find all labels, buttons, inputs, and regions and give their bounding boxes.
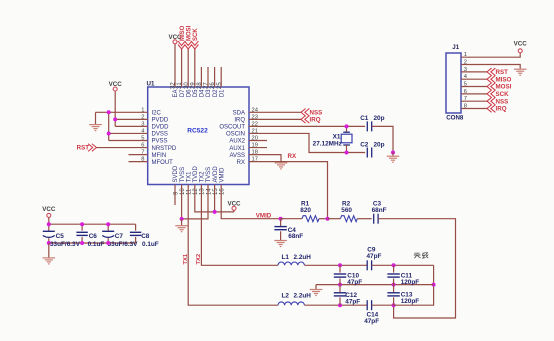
svg-text:PVDD: PVDD <box>152 118 169 124</box>
wire pin2 PVDD <box>115 118 148 120</box>
port IRQ <box>301 116 306 124</box>
wire pin6 NRSTPD <box>97 147 148 149</box>
svg-text:NRSTPD: NRSTPD <box>152 146 177 152</box>
svg-text:MFIN: MFIN <box>152 153 167 159</box>
wire pin29 D5 to SCK <box>194 49 196 87</box>
svg-text:SCK: SCK <box>496 91 510 98</box>
svg-text:120pF: 120pF <box>401 279 420 286</box>
wire pin8 MFOUT stub <box>129 161 148 163</box>
svg-text:12: 12 <box>193 188 199 195</box>
svg-text:MISO: MISO <box>180 25 186 41</box>
port IRQ at J1 <box>487 105 492 113</box>
svg-text:33uF/6.3V: 33uF/6.3V <box>50 241 81 248</box>
svg-text:C1: C1 <box>360 115 369 122</box>
svg-text:TX2: TX2 <box>200 171 206 183</box>
svg-text:20p: 20p <box>374 142 385 149</box>
capacitor C3 68nF <box>373 214 375 224</box>
svg-text:D1: D1 <box>219 89 225 97</box>
port MISO at J1 <box>487 75 492 83</box>
capacitor C11 120pF <box>393 265 395 272</box>
port MISO top <box>178 45 185 49</box>
capacitor C9 47pF <box>366 260 368 270</box>
svg-text:D4: D4 <box>200 89 206 97</box>
U1 right pin numbers 24-17 <box>252 107 259 162</box>
svg-text:D7: D7 <box>180 89 186 97</box>
junction VMID node <box>279 217 283 221</box>
inductor L2 2.2uH <box>278 302 304 305</box>
wire pin28 D4 stub <box>200 67 202 87</box>
wire pin9 SVDD stub <box>174 185 176 206</box>
svg-text:AVDD: AVDD <box>213 166 219 183</box>
svg-text:TVSS: TVSS <box>206 167 212 183</box>
svg-text:D5: D5 <box>193 89 199 97</box>
label antenna (tian xian) <box>414 252 429 258</box>
wire J1 pin6 to SCK port <box>461 93 487 95</box>
svg-text:14: 14 <box>206 188 212 195</box>
svg-text:32: 32 <box>171 82 177 89</box>
wire pin15 AVDD down <box>214 185 216 212</box>
ground TVSS <box>181 219 183 226</box>
svg-text:26: 26 <box>210 82 216 89</box>
wire junction to R2 <box>328 218 341 220</box>
svg-text:15: 15 <box>213 188 219 195</box>
svg-text:27: 27 <box>204 82 210 89</box>
U1 left pin numbers 1-8 <box>141 107 145 162</box>
svg-text:29: 29 <box>190 82 196 89</box>
svg-text:OSCOUT: OSCOUT <box>219 125 245 131</box>
svg-text:J1: J1 <box>452 44 459 51</box>
crystal X1 27.12MHz <box>346 126 348 132</box>
svg-text:D3: D3 <box>206 89 212 97</box>
capacitor C13 120pF <box>393 285 395 293</box>
wire virtual ground rail <box>316 284 434 286</box>
junction AVDD on VCC line <box>213 210 217 214</box>
junction pins left <box>107 110 111 114</box>
wire VMID to R1 <box>281 218 302 220</box>
svg-text:10: 10 <box>180 188 186 195</box>
ground AVSS <box>275 162 288 164</box>
port NSS <box>301 109 306 117</box>
wire pin30 D6 to MOSI <box>187 49 189 87</box>
svg-text:RX: RX <box>288 153 297 160</box>
connector J1 CON8 <box>446 53 461 113</box>
svg-text:2.2uH: 2.2uH <box>294 293 312 300</box>
svg-text:820: 820 <box>300 207 311 214</box>
svg-text:27.12MHz: 27.12MHz <box>313 140 342 147</box>
wire pin17 RX down to receiver divider <box>249 162 328 219</box>
wire vertical tying pins 1 4 5 <box>108 112 110 140</box>
U1 right pin names <box>219 111 245 166</box>
svg-text:RC522: RC522 <box>187 127 208 134</box>
wire pin31 D7 to MISO <box>181 49 183 87</box>
svg-text:VCC: VCC <box>42 206 56 213</box>
wire C1 to ground rail right <box>372 126 393 152</box>
port MOSI at J1 <box>487 83 492 91</box>
junction lower right antenna node <box>392 303 396 307</box>
svg-text:DVDD: DVDD <box>152 125 170 131</box>
svg-text:U1: U1 <box>147 81 155 88</box>
junction C2 right <box>391 151 395 155</box>
svg-text:MOSI: MOSI <box>496 84 512 91</box>
ground decoupling <box>48 243 50 258</box>
svg-text:28: 28 <box>197 82 203 89</box>
wire C3 to antenna loop <box>378 219 455 318</box>
ground of oscillator <box>392 153 394 156</box>
U1 bottom pin names <box>173 165 225 182</box>
svg-text:RST: RST <box>496 69 509 76</box>
wire pin4 DVSS <box>109 132 148 134</box>
wire R1 to junction <box>319 218 328 220</box>
wire pin16 VMID to node <box>221 185 280 219</box>
junction RX divider <box>326 217 330 221</box>
wire pin24 SDA to NSS port <box>249 111 301 113</box>
svg-text:IRQ: IRQ <box>310 117 321 124</box>
svg-text:D2: D2 <box>213 89 219 97</box>
svg-text:TX1: TX1 <box>186 171 192 183</box>
svg-text:DVSS: DVSS <box>152 132 168 138</box>
U1 left pin names <box>152 111 177 166</box>
svg-text:47pF: 47pF <box>364 318 379 325</box>
wire J1 pin5 to MOSI port <box>461 86 487 88</box>
svg-text:47pF: 47pF <box>345 299 360 306</box>
capacitor C2 20p <box>366 148 368 158</box>
capacitor C8 0.1uF <box>135 224 137 231</box>
wire pin21 OSCIN routed to crystal bottom <box>249 133 365 152</box>
U1 bottom pin numbers 9-16 <box>173 188 225 195</box>
wire antenna loop right <box>394 265 434 305</box>
wire L1 to node <box>304 264 367 266</box>
svg-text:560: 560 <box>341 207 352 214</box>
svg-text:AUX2: AUX2 <box>229 139 245 145</box>
wire J1 pin3 to RST port <box>461 71 487 73</box>
svg-text:TX2: TX2 <box>196 254 202 265</box>
wire pin12 TVDD to VCC <box>195 185 234 212</box>
wire pin26 D2 stub <box>214 67 216 87</box>
svg-text:AUX1: AUX1 <box>229 146 245 152</box>
port NSS at J1 <box>487 97 492 105</box>
svg-text:16: 16 <box>220 188 226 195</box>
wire pin27 D3 stub <box>207 67 209 87</box>
svg-text:C6: C6 <box>89 233 98 240</box>
svg-text:TX1: TX1 <box>183 253 189 264</box>
svg-text:68nF: 68nF <box>288 233 303 240</box>
svg-text:SDA: SDA <box>233 111 245 117</box>
svg-text:30: 30 <box>184 82 190 89</box>
junction antenna centre tap <box>432 283 436 287</box>
junctions decoupling rail <box>47 222 51 226</box>
svg-text:13: 13 <box>200 188 206 195</box>
svg-text:RST: RST <box>77 144 90 151</box>
wire J1 pin1 to VCC <box>461 53 520 57</box>
svg-text:VMID: VMID <box>219 167 225 183</box>
svg-text:C5: C5 <box>56 233 65 240</box>
svg-text:TVSS: TVSS <box>180 167 186 183</box>
wire pin11 TX1 down to L2 branch <box>188 185 278 306</box>
capacitor C4 68nF <box>280 219 282 227</box>
wire J1 pin7 to NSS port <box>461 100 487 102</box>
junction TVSS <box>180 217 184 221</box>
junction lower left antenna node <box>338 303 342 307</box>
capacitor C5 33uF/6.3V <box>48 224 50 231</box>
port SCK top <box>191 45 198 49</box>
svg-text:MOSI: MOSI <box>186 25 192 41</box>
junction upper right antenna node <box>392 263 396 267</box>
op-amp U1 RC522 chip body <box>148 87 249 185</box>
capacitor C1 20p <box>366 121 368 131</box>
wire R2 to C3 <box>357 218 371 220</box>
svg-text:SCK: SCK <box>193 28 199 41</box>
wire J1 pin4 to MISO port <box>461 78 487 80</box>
ground left of U1 <box>89 124 102 126</box>
svg-text:0.1uF: 0.1uF <box>88 241 105 248</box>
inductor L1 2.2uH <box>278 262 304 265</box>
capacitor C14 47pF <box>366 300 368 310</box>
svg-text:VCC: VCC <box>514 41 528 48</box>
wire pin3 DVDD <box>115 125 148 127</box>
port SCK at J1 <box>487 90 492 98</box>
port RST <box>92 144 97 152</box>
wire pin10 TVSS down <box>181 185 183 219</box>
wire VCC stem left <box>114 91 116 126</box>
wire pin19 AUX1 stub <box>249 147 267 149</box>
wire pin32 EA to VCC <box>174 44 176 87</box>
J1 pin numbers <box>464 52 468 109</box>
U1 top pin numbers 32-25 <box>171 82 223 89</box>
svg-text:D6: D6 <box>186 89 192 97</box>
capacitor C7 33uF/6.3V <box>107 224 109 231</box>
wire C14 to antenna terminal <box>372 304 394 306</box>
svg-text:47pF: 47pF <box>367 253 382 260</box>
wire pin7 MFIN stub <box>129 154 148 156</box>
svg-text:C7: C7 <box>115 233 124 240</box>
svg-text:CON8: CON8 <box>446 114 464 121</box>
junction OSC nodes <box>345 124 349 128</box>
svg-text:OSCIN: OSCIN <box>226 132 245 138</box>
wire pin20 AUX2 stub <box>249 140 267 142</box>
wire J1 pin8 to IRQ port <box>461 108 487 110</box>
wire pin22 OSCOUT to C1 <box>249 125 365 127</box>
svg-text:X1: X1 <box>333 133 341 140</box>
svg-text:IRQ: IRQ <box>234 118 245 124</box>
capacitor C10 47pF <box>339 265 341 272</box>
capacitor C12 47pF <box>339 285 341 293</box>
svg-text:C8: C8 <box>141 233 150 240</box>
junctions on virtual ground rail <box>338 283 342 287</box>
svg-text:31: 31 <box>177 82 183 89</box>
svg-text:0.1uF: 0.1uF <box>142 241 159 248</box>
wire pin14 TVSS over to pin10 <box>182 185 208 219</box>
svg-text:47pF: 47pF <box>347 279 362 286</box>
port RST at J1 <box>487 68 492 76</box>
wire ground drop left <box>95 112 97 124</box>
wire pin18 AVSS to ground <box>249 155 281 163</box>
ground at J1 <box>514 68 527 70</box>
svg-text:MISO: MISO <box>496 76 512 83</box>
svg-text:33uF/6.3V: 33uF/6.3V <box>108 241 139 248</box>
junction upper left antenna node <box>338 263 342 267</box>
svg-text:20p: 20p <box>374 115 385 122</box>
svg-text:11: 11 <box>187 188 193 195</box>
ground C4 <box>274 240 287 242</box>
svg-text:PVSS: PVSS <box>152 139 168 145</box>
svg-text:25: 25 <box>217 82 223 89</box>
svg-text:2.2uH: 2.2uH <box>294 254 312 261</box>
svg-text:L2: L2 <box>282 293 290 300</box>
wire pin5 PVSS <box>109 140 148 142</box>
wire decoupling bottom rail <box>49 242 136 244</box>
U1 top pin names <box>173 89 225 98</box>
resistor R2 560 <box>340 216 357 222</box>
svg-text:TVDD: TVDD <box>193 166 199 183</box>
wire pin1 I2C to ground rail <box>96 111 148 113</box>
wire pin23 IRQ to IRQ port <box>249 118 301 120</box>
svg-text:L1: L1 <box>282 254 290 261</box>
svg-text:I2C: I2C <box>152 111 162 117</box>
svg-text:68nF: 68nF <box>372 207 387 214</box>
svg-text:EA: EA <box>173 90 179 98</box>
wire pin13 TX2 down to L1 branch <box>201 185 278 266</box>
svg-text:RX: RX <box>237 160 245 166</box>
svg-text:NSS: NSS <box>310 110 323 117</box>
port MOSI top <box>185 45 192 49</box>
wire pin25 D1 stub <box>220 67 222 87</box>
svg-text:C2: C2 <box>360 142 369 149</box>
svg-text:SVDD: SVDD <box>173 165 179 182</box>
svg-text:MFOUT: MFOUT <box>152 160 174 166</box>
wire C9 to antenna terminal <box>372 264 434 266</box>
svg-text:AVSS: AVSS <box>229 153 245 159</box>
svg-text:120pF: 120pF <box>401 298 420 305</box>
svg-text:VMID: VMID <box>256 213 272 220</box>
resistor R1 820 <box>302 216 319 222</box>
capacitor C6 0.1uF <box>81 224 83 231</box>
wire L2 to node <box>304 304 367 306</box>
ground of antenna rail <box>315 285 317 290</box>
wire decoupling top rail <box>49 223 136 225</box>
svg-text:IRQ: IRQ <box>496 106 507 113</box>
svg-text:NSS: NSS <box>496 98 509 105</box>
wire J1 pin2 to ground <box>461 65 520 69</box>
